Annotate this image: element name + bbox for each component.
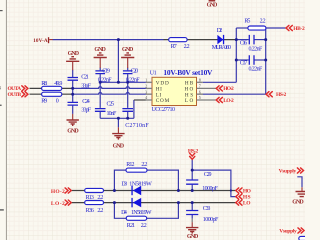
frame tick middle (0, 105, 2, 106)
svg-text:HB-2: HB-2 (293, 26, 305, 32)
svg-text:0.22nF: 0.22nF (249, 46, 263, 52)
svg-text:GND: GND (67, 128, 79, 134)
wire R21 left leg (114, 203, 126, 219)
capacitor C24 plates (68, 102, 79, 105)
svg-text:R12: R12 (126, 162, 134, 168)
junction node ground bus tap (117, 117, 120, 120)
op-amp driver U1 UCC27710 box (152, 77, 197, 105)
wire bottom ground bus (100, 117, 134, 119)
ground GND below C24 (67, 114, 80, 134)
svg-text:HO: HO (243, 188, 252, 194)
svg-text:0.22nF: 0.22nF (249, 66, 263, 72)
svg-text:C33: C33 (203, 206, 211, 212)
wire OUTB black segment (30, 93, 73, 95)
wire C17 left stub (236, 59, 248, 61)
svg-text:33pF: 33pF (81, 108, 91, 114)
svg-text:C24: C24 (82, 99, 90, 105)
wire bootstrap left vertical (235, 28, 237, 82)
port HS bottom right (236, 194, 251, 200)
svg-text:D3: D3 (121, 182, 127, 188)
ground GND right side (292, 187, 308, 205)
wire R5 left stub (236, 27, 248, 29)
svg-text:D2: D2 (217, 28, 223, 34)
svg-text:C16: C16 (240, 40, 248, 46)
svg-text:1N5819W: 1N5819W (129, 182, 152, 188)
wire C16 left stub (236, 39, 248, 41)
port HO bottom right (236, 188, 252, 194)
junction node C16 right (264, 38, 267, 41)
junction node C17 left (235, 59, 238, 62)
capacitor C29 plates (186, 180, 198, 184)
port LO bottom right (236, 200, 251, 206)
junction node HO row R12 right (177, 189, 180, 192)
wire HS branch to HS port (192, 170, 236, 197)
junction node HO row HS crossing (230, 189, 232, 191)
junction node VDD C19 (99, 81, 102, 84)
port Vsupply upper right (279, 168, 304, 175)
junction node VDD C20 (126, 81, 129, 84)
svg-text:D4: D4 (121, 210, 127, 216)
wire C16 right stub (254, 39, 266, 41)
wire C33 top lead (191, 203, 193, 211)
frame border line (6, 0, 7, 240)
capacitor C33 plates (186, 211, 198, 215)
junction node C17 right (264, 59, 267, 62)
svg-text:GND: GND (207, 3, 218, 9)
pin 4 COM stub (146, 99, 152, 101)
svg-text:C20: C20 (131, 68, 139, 74)
capacitor C17 plates (249, 55, 254, 65)
svg-text:OUTB: OUTB (8, 92, 22, 98)
port Vsupply bottom right (279, 228, 304, 235)
svg-text:R7: R7 (171, 44, 177, 50)
svg-text:2.2: 2.2 (184, 44, 190, 50)
diode D4 1N5819W (131, 198, 141, 207)
svg-text:Vsupply: Vsupply (279, 229, 297, 235)
junction node HO row C29 (191, 189, 194, 192)
ground GND below ground bus (112, 127, 125, 149)
svg-text:C25: C25 (107, 102, 115, 108)
wire R12 right leg (147, 170, 178, 190)
wire C20 column down to C27 (127, 82, 129, 108)
wire C33 bottom lead (191, 215, 193, 219)
svg-text:HB: HB (185, 80, 194, 86)
port HB-2 (286, 25, 305, 31)
wire LO row black (71, 202, 236, 204)
svg-text:10V-A: 10V-A (33, 38, 48, 44)
wire COM horizontal (134, 99, 146, 101)
resistor partial bottom right corner (299, 236, 317, 240)
resistor R13 body (85, 188, 104, 192)
svg-text:0.22nF: 0.22nF (126, 78, 140, 84)
ground GND below C33 (186, 222, 199, 240)
svg-text:3: 3 (145, 90, 147, 94)
svg-text:GND: GND (292, 200, 304, 206)
svg-text:R9: R9 (41, 99, 47, 105)
svg-text:1: 1 (145, 78, 147, 82)
diode D3 1N5819W (131, 186, 141, 195)
wire 10V-A rail black segment to R7 D2 node (164, 39, 237, 41)
svg-text:5: 5 (199, 96, 201, 100)
svg-text:4: 4 (145, 96, 147, 100)
port OUTA (8, 86, 28, 92)
wire vertical drop 10V-A to VDD rail (117, 40, 119, 83)
svg-text:U1: U1 (150, 71, 157, 77)
svg-text:C21: C21 (81, 74, 89, 80)
svg-text:R21: R21 (127, 223, 135, 229)
wire C29 to HO row (191, 185, 193, 191)
resistor R7 body (169, 38, 187, 42)
pin 5 LO stub (197, 99, 216, 101)
ground GND above C19 (94, 47, 107, 68)
junction node OUTA C21 (71, 87, 74, 90)
junction node 10V-A drop top (117, 38, 120, 41)
svg-text:10V-B0V set10V: 10V-B0V set10V (163, 68, 213, 77)
wire C19 column upper lead (99, 68, 101, 71)
svg-text:R5: R5 (244, 18, 250, 24)
svg-text:C19: C19 (102, 68, 110, 74)
svg-text:49.9: 49.9 (54, 81, 62, 87)
svg-text:GND: GND (187, 234, 199, 240)
svg-text:7: 7 (199, 85, 201, 89)
ground GND above C21 (66, 51, 80, 70)
port HO-2 right of U1 (216, 86, 234, 92)
capacitor C25 plates (95, 109, 106, 112)
wire 10V-A rail blue segment (53, 39, 164, 41)
pin 2 HI stub (146, 87, 152, 89)
svg-text:1N5819W: 1N5819W (131, 210, 152, 216)
port OUTB (8, 92, 28, 98)
wire C27 to bottom wire (127, 112, 129, 118)
svg-text:LO: LO (243, 200, 251, 206)
resistor R8 body (42, 86, 62, 90)
wire HS pin to HS-2 port (203, 93, 266, 95)
power port 10V-A (33, 37, 53, 44)
diode D2 MURA160 (217, 35, 224, 44)
svg-text:C17: C17 (240, 61, 248, 67)
wire COM vertical (133, 100, 135, 118)
wire C20 column upper lead (127, 68, 129, 71)
junction node OUTB C24 (71, 93, 74, 96)
port HS-2 down (188, 148, 199, 159)
svg-text:2.2: 2.2 (97, 208, 103, 214)
junction node HO row R12 left (113, 189, 116, 192)
pin 1 VDD stub (146, 81, 152, 83)
frame tick lower (0, 209, 4, 210)
svg-text:LO-2: LO-2 (223, 98, 234, 104)
wire HO row black (71, 190, 236, 192)
wire OUTA black segment (30, 87, 73, 89)
svg-text:2.2: 2.2 (141, 162, 147, 168)
wire VDD rail (100, 81, 146, 83)
svg-text:C29: C29 (204, 172, 212, 178)
wire R12 left leg (114, 170, 126, 190)
resistor R12 body (126, 168, 147, 172)
wire OUTA blue segment to HI pin with hops (73, 87, 146, 89)
wire OUTB blue segment to LI pin with hops (73, 93, 146, 95)
pin 6 HS stub (197, 93, 204, 95)
wire C33 gray lead (191, 219, 193, 223)
svg-text:Vsupply: Vsupply (279, 169, 297, 175)
svg-text:C2710nF: C2710nF (125, 123, 149, 129)
junction node LO row C33 (191, 201, 194, 204)
svg-text:1000pF: 1000pF (203, 217, 219, 223)
svg-text:2.2: 2.2 (141, 223, 147, 229)
svg-text:HS-2: HS-2 (276, 92, 287, 98)
svg-text:UCC27710: UCC27710 (152, 107, 176, 113)
ground GND top edge partial (207, 0, 218, 9)
pin 8 HB stub (197, 81, 203, 83)
capacitor C20 plates (123, 71, 133, 74)
wire GND tap lead (117, 118, 119, 127)
resistor R9 body (42, 92, 62, 96)
junction node LO row R21 left (113, 201, 116, 204)
svg-text:COM: COM (156, 98, 170, 104)
frame tick top (0, 10, 3, 11)
svg-text:HO-2: HO-2 (51, 189, 65, 195)
wire C19 column to VDD rail (99, 74, 101, 82)
port LO-2 right of U1 (216, 97, 234, 103)
ground GND above C20 (121, 47, 134, 68)
svg-text:R36: R36 (86, 208, 94, 214)
junction node D2 C16 (235, 38, 238, 41)
svg-text:10nF: 10nF (107, 111, 117, 117)
resistor R21 body (126, 216, 147, 220)
capacitor C27 plates (122, 109, 133, 112)
svg-text:0.22nF: 0.22nF (98, 78, 112, 84)
svg-text:2.2: 2.2 (260, 18, 266, 24)
port LO-2 bottom left (51, 200, 71, 207)
wire C19 column down to C25 (99, 82, 101, 108)
svg-text:1000pF: 1000pF (202, 186, 218, 192)
svg-text:8: 8 (199, 78, 201, 82)
svg-text:VDD: VDD (156, 80, 169, 86)
port HS-2 right (266, 92, 286, 99)
svg-text:LO: LO (185, 98, 194, 104)
capacitor C16 plates (249, 35, 254, 45)
port HO-2 bottom left (51, 188, 71, 195)
svg-text:R8: R8 (41, 81, 47, 87)
svg-text:LO-2: LO-2 (51, 201, 65, 207)
wire C21-C24 junction column (72, 81, 74, 102)
resistor R5 body (248, 26, 266, 30)
wire C17 right stub (254, 59, 266, 61)
svg-text:MURA160: MURA160 (212, 45, 231, 51)
svg-text:33pF: 33pF (81, 83, 91, 89)
wire bootstrap right vertical (265, 28, 267, 94)
wire HS-2 column upper (191, 159, 193, 180)
svg-text:6: 6 (199, 90, 201, 94)
pin 7 HO stub (197, 87, 216, 89)
resistor R36 body (85, 201, 104, 205)
junction node ground bus C27 (126, 117, 129, 120)
capacitor C19 plates (95, 71, 105, 74)
junction node LO row R21 right (177, 201, 180, 204)
wire C21 top lead (72, 70, 74, 77)
wire R21 right leg (147, 203, 179, 219)
svg-text:HO-2: HO-2 (223, 86, 234, 92)
wire HB pin to bootstrap node (203, 81, 237, 83)
wire C25 to bottom wire (99, 112, 101, 118)
junction node HS branch (191, 169, 194, 172)
svg-text:0: 0 (56, 99, 59, 105)
svg-text:2: 2 (145, 85, 147, 89)
wire right GND elbow (297, 177, 302, 188)
wire R5 right to HB-2 port (266, 27, 286, 29)
svg-text:GND: GND (113, 144, 125, 150)
junction node VDD drop (117, 81, 120, 84)
wire C24 bottom lead (72, 106, 74, 114)
capacitor C21 plates (68, 78, 79, 81)
pin 3 LI stub (146, 93, 152, 95)
wire C20 column to VDD rail (127, 74, 129, 82)
